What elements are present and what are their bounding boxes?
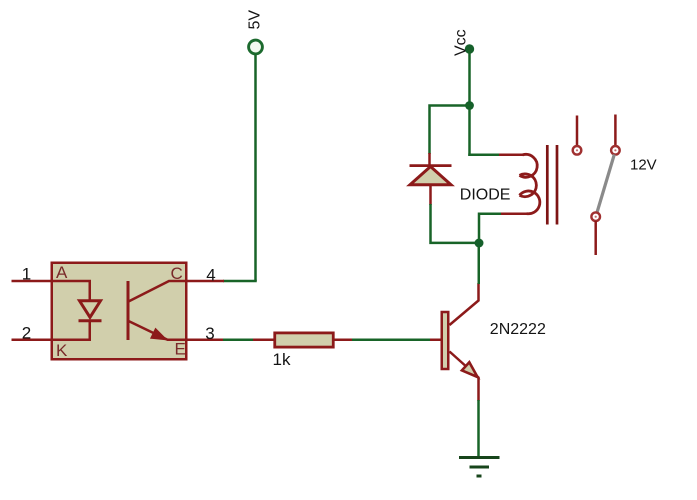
switch SW1 left contact bbox=[573, 146, 582, 155]
svg-text:1k: 1k bbox=[273, 350, 291, 369]
transistor Q1 emitter arrow bbox=[462, 362, 478, 377]
terminal 5V bbox=[249, 40, 263, 54]
junction node top bbox=[465, 101, 474, 110]
transistor Q1 collector bbox=[450, 283, 479, 325]
switch SW1 bottom lead bbox=[594, 221, 597, 255]
svg-text:E: E bbox=[175, 340, 186, 359]
power Vcc dot bbox=[465, 44, 474, 53]
pin 3 wire bbox=[187, 339, 224, 342]
pin 1 wire bbox=[12, 280, 52, 283]
wire resistor to transistor base bbox=[352, 339, 431, 342]
transistor Q1 base pin bbox=[430, 339, 441, 342]
switch SW1 pivot contact bbox=[611, 146, 620, 155]
relay core bars bbox=[546, 145, 549, 225]
junction node bottom bbox=[475, 239, 484, 248]
svg-text:2: 2 bbox=[22, 323, 31, 342]
wire diode to bottom junction bbox=[431, 204, 477, 243]
ground bbox=[459, 458, 500, 477]
svg-text:1: 1 bbox=[22, 265, 31, 284]
svg-text:4: 4 bbox=[206, 265, 215, 284]
LED diode inside optocoupler: anode path bbox=[51, 281, 90, 301]
resistor R1 left pin bbox=[253, 339, 274, 342]
svg-text:12V: 12V bbox=[630, 157, 657, 174]
phototransistor base bar bbox=[127, 281, 130, 340]
diode D1 triangle bbox=[410, 167, 451, 185]
wire 5V rail down to pin 4 node bbox=[254, 55, 257, 281]
svg-text:K: K bbox=[56, 341, 68, 360]
switch SW1 left contact lead bbox=[576, 116, 579, 147]
diode D1 bottom pin bbox=[429, 185, 432, 205]
transistor Q1 base bar bbox=[442, 312, 449, 369]
svg-text:C: C bbox=[171, 264, 183, 283]
svg-text:DIODE: DIODE bbox=[460, 186, 511, 203]
wire Vcc down bbox=[468, 49, 471, 106]
wire collector up to junction bbox=[478, 243, 481, 284]
svg-text:2N2222: 2N2222 bbox=[490, 321, 546, 338]
svg-text:A: A bbox=[56, 263, 68, 282]
LED cathode bar bbox=[79, 319, 102, 322]
switch SW1 pivot lead bbox=[614, 115, 617, 147]
pin 2 wire bbox=[12, 339, 52, 342]
resistor R1 body bbox=[275, 333, 334, 347]
LED triangle bbox=[80, 301, 101, 318]
diode D1 top pin bbox=[428, 153, 431, 167]
svg-text:5V: 5V bbox=[247, 10, 264, 30]
wire to coil top bbox=[468, 154, 500, 157]
wire pin3 to resistor bbox=[223, 339, 254, 342]
wire junction to flyback diode bbox=[430, 106, 470, 155]
phototransistor collector bbox=[129, 281, 188, 302]
optocoupler U1 body bbox=[52, 263, 187, 360]
pin 4 wire bbox=[187, 280, 224, 283]
switch SW1 blade bbox=[597, 155, 614, 213]
switch SW1 bottom contact bbox=[591, 212, 600, 221]
wire coil bottom to junction bbox=[479, 214, 501, 240]
transistor Q1 emitter bbox=[450, 352, 479, 402]
wire pin4 to 5V rail bbox=[223, 280, 257, 283]
LED cathode path bbox=[51, 321, 90, 340]
wire emitter down to ground bbox=[477, 400, 480, 457]
phototransistor emitter arrow bbox=[151, 329, 166, 340]
diode D1 cathode bar bbox=[410, 164, 452, 167]
wire Vcc branch down to coil bbox=[468, 106, 471, 157]
resistor R1 right pin bbox=[335, 339, 354, 342]
svg-text:3: 3 bbox=[205, 324, 214, 343]
phototransistor emitter bbox=[129, 321, 188, 340]
relay coil loops bbox=[520, 154, 538, 177]
svg-text:Vcc: Vcc bbox=[453, 29, 470, 56]
relay coil top pin bbox=[499, 154, 523, 157]
relay coil bottom pin bbox=[500, 213, 527, 216]
